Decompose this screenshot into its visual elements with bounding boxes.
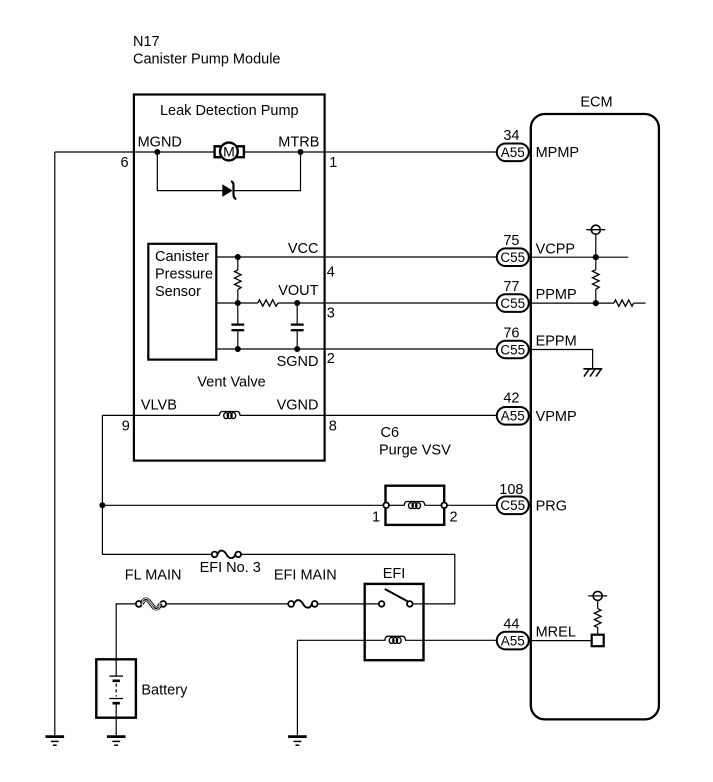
svg-text:A55: A55	[501, 145, 525, 160]
svg-text:4: 4	[327, 265, 335, 281]
svg-text:MGND: MGND	[138, 135, 182, 151]
node VOUT junction right	[294, 300, 300, 306]
wire battery to FL MAIN	[116, 604, 136, 659]
svg-text:A55: A55	[501, 409, 525, 424]
label C6 Purge VSV	[379, 425, 451, 459]
svg-text:Canister: Canister	[155, 249, 209, 265]
svg-text:77: 77	[503, 279, 519, 295]
svg-text:VCPP: VCPP	[536, 241, 576, 257]
svg-text:3: 3	[327, 306, 335, 322]
svg-text:1: 1	[372, 510, 380, 526]
node VOUT junction left	[235, 300, 241, 306]
resistor sensor pull-up	[235, 257, 242, 303]
svg-text:M: M	[223, 144, 235, 160]
chassis ground EPPM	[583, 369, 602, 377]
svg-text:C6: C6	[381, 425, 400, 441]
svg-text:MTRB: MTRB	[278, 135, 319, 151]
svg-text:Leak Detection Pump: Leak Detection Pump	[160, 103, 299, 119]
wire VOUT row	[216, 302, 258, 304]
svg-text:MPMP: MPMP	[536, 145, 580, 161]
svg-text:MREL: MREL	[536, 624, 576, 640]
wire relay coil left to ground	[297, 640, 385, 735]
connector C55 pin77 PPMP	[497, 279, 577, 312]
svg-text:VOUT: VOUT	[278, 283, 318, 299]
connector A55 pin42 VPMP	[497, 391, 577, 425]
resistor MREL pull-up	[594, 600, 601, 634]
svg-text:EPPM: EPPM	[536, 333, 577, 349]
svg-text:1: 1	[329, 155, 337, 171]
svg-text:VPMP: VPMP	[536, 409, 577, 425]
svg-text:C55: C55	[500, 498, 525, 513]
svg-text:Canister Pump Module: Canister Pump Module	[133, 52, 281, 68]
diode D1	[222, 181, 236, 199]
wire FL MAIN to EFI MAIN	[166, 603, 288, 605]
ground left	[46, 737, 65, 746]
wire diode loop	[157, 152, 222, 191]
node MGND junction	[154, 149, 160, 155]
svg-text:8: 8	[329, 419, 337, 435]
svg-text:N17: N17	[133, 34, 160, 50]
battery B1	[96, 659, 188, 735]
purge VSV box	[383, 486, 447, 525]
connector C55 pin75 VCPP	[497, 233, 575, 266]
svg-text:VGND: VGND	[277, 397, 319, 413]
ECM box	[531, 95, 659, 720]
wire PPMP inside ECM	[529, 302, 614, 304]
svg-text:2: 2	[327, 351, 335, 367]
wire MTRB row to MPMP	[244, 151, 497, 153]
node VCC junction	[235, 254, 241, 260]
Leak Detection Pump box	[134, 95, 325, 461]
svg-text:ECM: ECM	[580, 95, 612, 111]
power B+ symbol VCPP	[586, 225, 605, 257]
connector C55 pin108 PRG	[497, 482, 567, 514]
wire EFI MAIN to relay	[318, 603, 379, 605]
connector A55 pin44 MREL	[497, 617, 576, 650]
svg-text:VCC: VCC	[288, 241, 319, 257]
node MTRB junction	[298, 149, 304, 155]
Canister Pressure Sensor box	[148, 244, 216, 360]
wire VCPP inside ECM	[529, 256, 629, 258]
wire PRG row right	[447, 504, 497, 506]
svg-text:Sensor: Sensor	[155, 284, 201, 300]
svg-text:34: 34	[503, 128, 519, 144]
svg-text:C55: C55	[500, 296, 525, 311]
ground battery	[107, 737, 126, 746]
svg-text:Vent Valve: Vent Valve	[197, 375, 265, 391]
motor M1	[215, 143, 244, 161]
wire PRG row left	[102, 504, 383, 506]
svg-text:Pressure: Pressure	[155, 266, 213, 282]
inductor EFI relay coil	[385, 636, 406, 643]
wire MREL inside ECM	[529, 640, 592, 642]
svg-text:Battery: Battery	[141, 683, 188, 699]
svg-text:EFI: EFI	[383, 566, 406, 582]
resistor PPMP series	[614, 300, 634, 306]
svg-text:FL MAIN: FL MAIN	[125, 568, 182, 584]
wire MGND row	[55, 151, 215, 153]
wire VLVB branch down	[101, 415, 103, 554]
svg-text:Purge VSV: Purge VSV	[379, 443, 451, 459]
connector C55 pin76 EPPM	[497, 326, 577, 359]
wire inside VSV	[389, 504, 405, 506]
svg-text:A55: A55	[501, 633, 525, 648]
wire VCC row	[216, 256, 497, 258]
title N17 Canister Pump Module	[133, 34, 281, 68]
node SGND junction right	[294, 346, 300, 352]
connector A55 pin34 MPMP	[497, 128, 579, 161]
switch EFI relay contacts	[379, 589, 424, 607]
capacitor C-left	[231, 303, 244, 349]
svg-text:76: 76	[503, 326, 519, 342]
node VCPP junction	[593, 254, 599, 260]
fuse FL MAIN fusible link	[136, 598, 166, 609]
fuse EFI No.3	[212, 551, 241, 559]
svg-text:EFI MAIN: EFI MAIN	[274, 568, 337, 584]
svg-text:C55: C55	[500, 250, 525, 265]
svg-text:VLVB: VLVB	[141, 397, 177, 413]
wire EFI No.3 row	[102, 553, 211, 555]
node PPMP junction	[593, 300, 599, 306]
svg-text:9: 9	[122, 419, 130, 435]
svg-text:PPMP: PPMP	[536, 287, 577, 303]
wire SGND row	[216, 348, 497, 350]
resistor VCPP-PPMP	[593, 257, 600, 303]
svg-text:C55: C55	[500, 342, 525, 357]
relay EFI box	[365, 584, 424, 660]
node PRG branch junction	[99, 502, 105, 508]
capacitor C-right	[291, 303, 304, 349]
power B+ symbol MREL	[588, 591, 607, 600]
svg-text:44: 44	[503, 617, 519, 633]
svg-text:PRG: PRG	[536, 498, 567, 514]
wire vent valve row	[102, 414, 219, 416]
inductor vent valve coil	[219, 412, 240, 419]
svg-text:6: 6	[121, 155, 129, 171]
wire MGND left to ground (left vertical)	[54, 152, 56, 736]
ground relay coil	[288, 737, 307, 746]
svg-text:EFI No. 3: EFI No. 3	[200, 560, 261, 576]
svg-text:SGND: SGND	[277, 354, 319, 370]
svg-text:75: 75	[503, 233, 519, 249]
wire relay coil right to MREL	[405, 639, 497, 641]
relay contact box MREL	[592, 635, 604, 647]
svg-text:42: 42	[503, 391, 519, 407]
wire EPPM inside ECM	[529, 350, 593, 369]
inductor purge VSV coil	[404, 502, 425, 509]
fuse EFI MAIN	[288, 600, 317, 608]
resistor VOUT series	[258, 300, 278, 306]
svg-text:2: 2	[450, 510, 458, 526]
node SGND junction left	[235, 346, 241, 352]
